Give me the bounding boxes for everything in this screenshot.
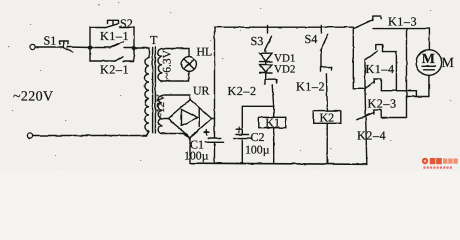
svg-text:~6.3V: ~6.3V xyxy=(162,49,174,79)
wire bridge bottom vertex to negative rail xyxy=(189,138,191,164)
diode VD2 xyxy=(260,62,272,73)
contact K1-4 blade xyxy=(365,51,377,59)
wire primary bottom to lower terminal xyxy=(33,131,149,135)
switch S2 pushbutton cap xyxy=(108,20,119,25)
svg-text:K1–2: K1–2 xyxy=(296,80,325,94)
svg-text:K2: K2 xyxy=(320,111,335,125)
negative bottom rail xyxy=(190,163,367,164)
svg-text:K2–4: K2–4 xyxy=(357,129,386,143)
jog wire right of K2-3 row xyxy=(415,91,417,97)
rail after K1-3 to motor xyxy=(374,29,430,50)
parallel box right edge xyxy=(133,28,135,62)
wire S1 to node A xyxy=(68,46,91,49)
wire VD2 to K2-2 xyxy=(265,73,267,79)
transformer core xyxy=(153,48,156,134)
top positive rail xyxy=(215,26,354,28)
capacitor C2 xyxy=(234,135,251,139)
12V loop top wire to bridge top vertex xyxy=(162,95,190,100)
svg-text:S3: S3 xyxy=(251,34,264,48)
contact K2-4 blade xyxy=(357,112,374,119)
wire junction to C2 xyxy=(242,106,273,134)
12V loop bottom wire to bridge bottom vertex xyxy=(162,134,190,138)
contact K1-4 hook xyxy=(376,45,383,52)
wire from upper terminal to S1 xyxy=(35,46,64,48)
switch S1 blade xyxy=(64,48,73,53)
svg-text:~220V: ~220V xyxy=(13,90,53,105)
svg-text:K2–2: K2–2 xyxy=(228,84,257,98)
svg-text:UR: UR xyxy=(193,84,210,98)
svg-text:K1–4: K1–4 xyxy=(366,62,395,76)
vertical from rail before K1-3 down xyxy=(352,28,354,88)
vertical motor-top branch xyxy=(406,29,408,118)
svg-text:M: M xyxy=(422,52,435,67)
lamp HL xyxy=(182,57,197,72)
motor M circle xyxy=(416,50,442,76)
bridge rectifier UR diamond xyxy=(168,100,212,138)
wire K2 to bottom rail xyxy=(326,123,328,164)
wire node B to transformer primary xyxy=(134,48,149,58)
contact K2-2 blade xyxy=(272,85,274,107)
DC positive bus vertical xyxy=(214,27,216,137)
contact K1-1 on middle line xyxy=(90,47,134,49)
red watermark bottom right xyxy=(422,158,458,169)
svg-text:S1: S1 xyxy=(44,34,57,48)
contact K2-3 hook xyxy=(374,79,381,91)
parallel box left edge xyxy=(89,28,91,62)
svg-text:~12V: ~12V xyxy=(155,94,167,119)
transformer secondary 6.3V winding xyxy=(158,49,162,81)
svg-text:HL: HL xyxy=(197,45,213,59)
svg-text:K2–1: K2–1 xyxy=(100,63,129,77)
svg-text:K1–1: K1–1 xyxy=(100,29,129,43)
svg-text:VD2: VD2 xyxy=(274,64,295,76)
contact K2-2 hook xyxy=(265,79,277,84)
contact K1-3 hook xyxy=(373,16,381,20)
scan speckle xyxy=(8,2,451,161)
contact K2-4 hook xyxy=(374,110,381,118)
transformer secondary 12V winding xyxy=(158,95,162,133)
wire K2-2 to relay K1 xyxy=(273,107,275,118)
transformer T primary winding xyxy=(145,58,149,132)
switch S4 stub xyxy=(320,26,322,34)
wire bridge left vertex to winding xyxy=(162,118,168,120)
switch S3 blade xyxy=(264,36,271,51)
contact K1-3 blade on rail xyxy=(354,20,373,29)
middle chain vertical xyxy=(365,60,367,165)
elbow to middle chain xyxy=(353,87,365,89)
box top edge with S2 xyxy=(90,27,134,29)
contact K2-3 blade xyxy=(365,81,374,88)
box bottom edge with contact K2-1 xyxy=(90,60,134,62)
contact K1-2 hook xyxy=(321,67,332,72)
terminal lower left xyxy=(27,133,32,138)
relay coil K2 box xyxy=(313,111,341,123)
svg-text:S4: S4 xyxy=(305,32,318,46)
6.3V loop top wire xyxy=(162,49,189,58)
motor bottom row xyxy=(407,96,429,98)
svg-text:K1–3: K1–3 xyxy=(388,15,417,29)
contact K1-2 blade xyxy=(326,74,327,111)
wire S4 to K1-2 xyxy=(320,51,322,68)
C1 plus sign xyxy=(204,130,209,135)
bridge internal diode xyxy=(182,108,200,127)
switch S3 stub xyxy=(267,26,269,34)
relay coil K1 box xyxy=(259,117,286,127)
svg-text:M: M xyxy=(442,56,455,71)
motor DC bars xyxy=(423,66,436,70)
switch S4 blade xyxy=(320,34,328,50)
svg-text:T: T xyxy=(150,33,158,47)
wire motor bottom xyxy=(428,75,430,96)
svg-text:100µ: 100µ xyxy=(184,149,209,163)
contact K2-4 output row xyxy=(381,117,406,119)
node A junction dot xyxy=(88,45,93,50)
svg-text:100µ: 100µ xyxy=(245,143,270,157)
contact K1-4 output wire xyxy=(383,52,397,91)
switch S1 pushbutton cap xyxy=(60,41,69,46)
wire K1 to bottom rail xyxy=(273,128,275,164)
capacitor C1 xyxy=(205,138,223,142)
diode VD1 xyxy=(260,51,272,62)
terminal upper left xyxy=(30,44,35,49)
6.3V loop bottom wire xyxy=(162,71,189,81)
wire bridge + output to DC bus xyxy=(212,118,215,120)
svg-text:K1: K1 xyxy=(265,116,280,130)
switch S2 blade xyxy=(105,24,119,28)
svg-text:K2–3: K2–3 xyxy=(368,97,397,111)
C2 plus sign xyxy=(236,127,241,132)
contact K2-3 output row xyxy=(381,90,416,92)
node B junction dot xyxy=(132,46,137,51)
